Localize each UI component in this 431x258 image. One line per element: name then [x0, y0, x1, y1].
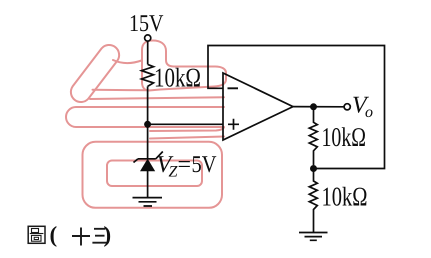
plus sign inside op-amp: [228, 119, 239, 130]
zener D1 cathode bar with bent ends: [134, 152, 163, 163]
svg-text:(: (: [50, 222, 58, 247]
caption: character tu (figure) drawn as paths: [28, 226, 45, 243]
node Vo junction dot: [310, 103, 317, 110]
terminal circle 15V: [145, 35, 151, 41]
feedback rail: minus input up over to divider midpoint: [208, 46, 385, 169]
node A junction dot: [144, 121, 151, 128]
wire node A to zener: [147, 124, 149, 159]
svg-text:15V: 15V: [129, 11, 164, 37]
caption: character san (three): [92, 229, 106, 243]
svg-text:10kΩ: 10kΩ: [322, 181, 368, 211]
svg-text:=: =: [178, 152, 192, 178]
pink annotation: outer rounded rect around zener: [83, 142, 223, 208]
pink annotation: extra bottom line: [150, 128, 224, 132]
wire R1 to node A: [147, 86, 149, 124]
wire zener anode to ground: [147, 171, 149, 197]
ground symbol (right): [299, 233, 328, 241]
svg-text:5V: 5V: [192, 152, 218, 178]
resistor R1 10k zigzag: [142, 64, 154, 86]
pink annotation: inner rect around zener: [107, 161, 202, 187]
resistor R3 10k zigzag: [309, 172, 317, 233]
pink annotation: extra line near outer rect top: [150, 137, 224, 139]
svg-text:10kΩ: 10kΩ: [322, 122, 367, 152]
wire node A to op-amp plus input: [148, 123, 223, 125]
caption: character shi (ten): [72, 228, 90, 246]
terminal circle Vo: [344, 104, 350, 110]
resistor R2 10k zigzag: [309, 110, 317, 165]
wire 15V terminal to R1: [147, 41, 149, 64]
pink annotation: line from bulb to right: [90, 97, 224, 99]
op-amp output wire: [293, 106, 344, 108]
pink annotation: connector bulb to arch: [113, 60, 142, 63]
op-amp U1 triangle: [223, 73, 293, 140]
ground symbol (zener): [133, 198, 163, 206]
svg-text:10kΩ: 10kΩ: [154, 63, 201, 93]
pink annotation: big loop around R1 with arch over terminal: [142, 41, 226, 91]
pink annotation: bottom edge extension to bulb: [93, 89, 150, 92]
pink annotation: diagonal loop: [71, 45, 119, 102]
svg-text:o: o: [365, 104, 373, 121]
node B junction dot (divider midpoint): [310, 165, 317, 172]
zener D1 triangle: [141, 160, 154, 171]
minus sign inside op-amp: [228, 87, 239, 89]
pink annotation: long capsule: [66, 107, 224, 127]
